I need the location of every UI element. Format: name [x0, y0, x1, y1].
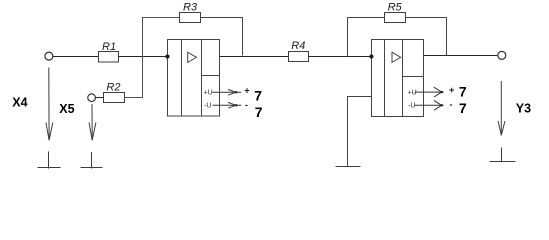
svg-text:+: +	[244, 86, 250, 97]
wire U1 output to R4	[220, 56, 289, 58]
wire U2 noninverting input to ground	[348, 97, 372, 168]
ground X5	[81, 152, 103, 169]
resistor R1	[99, 41, 119, 62]
svg-text:-: -	[449, 100, 452, 111]
terminal X4	[45, 52, 53, 60]
wire R5 to U2 input	[348, 18, 385, 57]
svg-text:R4: R4	[291, 40, 305, 52]
svg-text:Y3: Y3	[516, 102, 531, 116]
svg-text:-: -	[245, 100, 248, 111]
svg-text:+: +	[449, 85, 455, 96]
svg-text:R1: R1	[102, 41, 116, 53]
terminal X5	[88, 94, 96, 102]
wire R2 up to R3 (node A branch)	[125, 18, 180, 98]
ground X4	[38, 152, 61, 169]
junction node A dot overlay	[166, 55, 170, 59]
ground U2	[336, 166, 361, 168]
svg-text:-U: -U	[204, 103, 211, 110]
pin +U of U2	[408, 87, 444, 97]
junction node B dot overlay	[370, 55, 374, 59]
label +7 supply of U2	[449, 84, 467, 100]
pin -U of U1	[204, 102, 241, 109]
junction node A (U1 input)	[166, 55, 170, 59]
svg-text:X4: X4	[12, 96, 27, 110]
junction node B (U2 input)	[370, 55, 374, 59]
svg-text:-U: -U	[408, 103, 415, 110]
label -7 supply of U2	[449, 100, 467, 117]
wire U2 output to Y3	[424, 55, 498, 57]
resistor R5	[385, 1, 406, 22]
label +7 supply of U1	[244, 86, 262, 104]
svg-text:7: 7	[254, 88, 262, 104]
resistor R3	[180, 1, 201, 22]
wire R5 to U2 output	[406, 18, 447, 56]
svg-text:R5: R5	[388, 1, 403, 13]
pin -U of U2	[408, 100, 443, 110]
voltage arrow Y3	[498, 81, 505, 135]
svg-text:+U: +U	[204, 90, 213, 97]
resistor R4	[289, 40, 309, 62]
svg-text:7: 7	[459, 100, 467, 116]
voltage arrow X5	[89, 104, 96, 140]
label -7 supply of U1	[245, 100, 263, 120]
svg-text:R2: R2	[106, 81, 120, 93]
svg-text:R3: R3	[183, 1, 198, 13]
wire R3 to U1 output	[201, 18, 243, 56]
ground Y3	[490, 148, 516, 163]
svg-text:+U: +U	[408, 89, 417, 96]
wire R1 to op-amp U1 input	[119, 56, 168, 58]
op-amp U2	[372, 40, 424, 117]
svg-text:X5: X5	[59, 102, 74, 116]
svg-text:7: 7	[255, 104, 263, 120]
wire X5 to R2	[95, 97, 103, 99]
wire R4 to op-amp U2 input	[309, 56, 372, 58]
svg-text:7: 7	[459, 84, 467, 100]
resistor R2	[104, 81, 125, 102]
op-amp U1	[168, 40, 220, 117]
voltage arrow X4	[46, 68, 53, 141]
wire X4 to R1	[53, 56, 99, 58]
terminal Y3	[498, 51, 506, 59]
pin +U of U1	[204, 89, 242, 96]
